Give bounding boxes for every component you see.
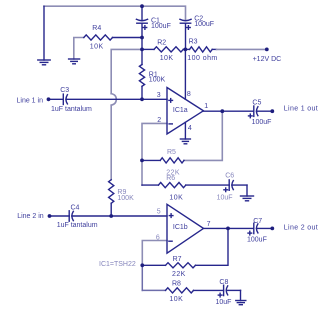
svg-text:R7: R7 xyxy=(173,256,182,263)
node C2/R2/R3 junction xyxy=(184,48,188,52)
wire IC1b pin6 to R7 node xyxy=(142,241,167,266)
ground G3 under IC1a xyxy=(180,139,190,144)
svg-text:R4: R4 xyxy=(92,25,101,32)
svg-text:3: 3 xyxy=(157,92,161,99)
svg-text:Line 1 out: Line 1 out xyxy=(284,106,318,113)
node Line 1 out terminal xyxy=(270,109,274,113)
wire hop over Line 1 input wire xyxy=(111,94,116,106)
capacitor C7 100uF xyxy=(247,218,272,243)
node +12V DC terminal xyxy=(265,48,269,52)
svg-text:10K: 10K xyxy=(160,55,174,62)
wire IC1a pin2 to R5/R6 node xyxy=(142,123,167,185)
node pin2/R5 junction xyxy=(140,159,144,163)
wire IC1b output pin 7 xyxy=(204,227,254,229)
svg-text:7: 7 xyxy=(207,221,211,228)
resistor R1 100K xyxy=(139,49,165,99)
node Line 2 in terminal xyxy=(48,214,52,218)
svg-text:10K: 10K xyxy=(90,44,104,51)
svg-text:C4: C4 xyxy=(71,205,80,212)
svg-text:100uF: 100uF xyxy=(252,119,272,126)
node output2 feedback junction xyxy=(226,227,230,231)
svg-text:10K: 10K xyxy=(169,296,183,303)
capacitor C5 100uF xyxy=(249,100,273,127)
svg-text:100K: 100K xyxy=(117,195,134,202)
resistor R4 10K xyxy=(84,25,142,51)
wire inverting branch down to R9 top xyxy=(110,105,112,180)
svg-text:1uF tantalum: 1uF tantalum xyxy=(51,106,92,113)
capacitor C6 10uF xyxy=(217,173,247,202)
svg-text:2: 2 xyxy=(157,117,161,124)
svg-text:100K: 100K xyxy=(149,77,166,84)
svg-text:R6: R6 xyxy=(166,175,175,182)
ground G4 after C6 xyxy=(241,196,254,201)
node R9/Line2 junction xyxy=(109,214,113,218)
svg-text:10K: 10K xyxy=(169,194,183,201)
svg-text:IC1b: IC1b xyxy=(173,224,188,231)
node rail C1 junction xyxy=(140,4,144,8)
svg-text:R8: R8 xyxy=(172,281,181,288)
wire pin 4 to ground xyxy=(184,122,186,139)
wire C8 to ground stub xyxy=(240,290,242,300)
svg-text:10uF: 10uF xyxy=(217,195,233,202)
svg-text:R3: R3 xyxy=(189,39,198,46)
wire node C to inverting branch corner xyxy=(111,49,142,93)
ground G5 after C8 xyxy=(236,301,246,305)
svg-text:Line 2 in: Line 2 in xyxy=(17,213,44,220)
svg-text:100uF: 100uF xyxy=(247,236,267,243)
wire C6 to ground stub xyxy=(246,185,248,196)
svg-text:C5: C5 xyxy=(252,100,261,107)
node R1/pin3 junction xyxy=(140,97,144,101)
wire C1 column xyxy=(141,6,143,19)
node Line 1 in terminal xyxy=(47,97,51,101)
node B R4/C1 junction xyxy=(140,36,144,40)
op-amp U IC1a xyxy=(157,88,204,135)
resistor R7 22K xyxy=(142,256,195,278)
svg-text:1uF tantalum: 1uF tantalum xyxy=(57,222,98,229)
svg-text:Line 2 out: Line 2 out xyxy=(284,225,318,232)
ground G2 xyxy=(69,59,80,64)
resistor R3 100 ohm xyxy=(185,39,266,63)
capacitor C4 1uF tantalum xyxy=(50,205,168,230)
wire IC1a output pin 1 xyxy=(203,110,253,112)
resistor R8 10K xyxy=(142,281,223,304)
op-amp U IC1b xyxy=(156,204,204,253)
capacitor C3 1uF tantalum xyxy=(49,87,168,113)
svg-text:IC1=TSH22: IC1=TSH22 xyxy=(99,261,136,268)
svg-text:C7: C7 xyxy=(253,218,262,225)
capacitor C1 100uF xyxy=(136,18,170,50)
node pin6/R7/R8 junction xyxy=(140,263,144,267)
svg-text:100uF: 100uF xyxy=(151,23,171,30)
wire feedback output2 down to R7 right xyxy=(196,228,229,265)
svg-text:100 ohm: 100 ohm xyxy=(187,55,217,62)
resistor R5 22K xyxy=(142,149,184,177)
resistor R2 10K xyxy=(142,40,185,63)
svg-text:R5: R5 xyxy=(167,149,176,156)
svg-text:100uF: 100uF xyxy=(194,21,214,28)
svg-text:10uF: 10uF xyxy=(216,299,232,306)
svg-text:Line 1 in: Line 1 in xyxy=(17,97,44,104)
svg-text:C6: C6 xyxy=(225,173,234,180)
resistor R6 10K xyxy=(142,175,229,201)
wire ground rail top xyxy=(44,6,186,19)
svg-text:C8: C8 xyxy=(219,279,228,286)
wire pin 8 supply xyxy=(184,49,186,99)
capacitor C2 100uF xyxy=(180,16,214,50)
capacitor C8 10uF xyxy=(216,279,241,306)
wire R7 node down to R8 xyxy=(141,265,143,290)
node Line 2 out terminal xyxy=(270,227,274,231)
wire R4 left leg down to ground G2 xyxy=(74,38,84,60)
svg-text:IC1a: IC1a xyxy=(173,107,188,114)
svg-text:1: 1 xyxy=(204,103,208,110)
node output1 feedback junction xyxy=(220,109,224,113)
svg-text:+12V DC: +12V DC xyxy=(253,56,282,63)
wire left rail drop to ground G1 xyxy=(43,6,45,60)
svg-text:5: 5 xyxy=(157,209,161,216)
svg-text:6: 6 xyxy=(156,234,160,241)
wire feedback output1 down to R5 right xyxy=(184,111,222,160)
svg-text:22K: 22K xyxy=(172,271,186,278)
svg-text:8: 8 xyxy=(187,91,191,98)
svg-text:4: 4 xyxy=(188,125,192,132)
node C R2/R1 junction xyxy=(140,48,144,52)
resistor R9 100K xyxy=(109,180,134,216)
ground G1 xyxy=(38,60,50,65)
svg-text:C3: C3 xyxy=(60,87,69,94)
svg-text:R2: R2 xyxy=(157,40,166,47)
